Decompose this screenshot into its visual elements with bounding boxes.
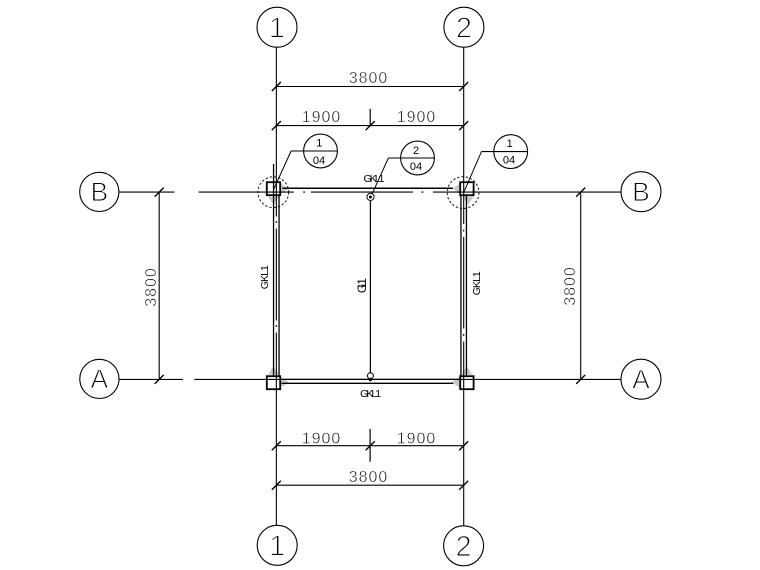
pin triangle beam grid2 bottom end xyxy=(461,366,472,375)
svg-text:1: 1 xyxy=(269,531,285,563)
svg-text:GL1: GL1 xyxy=(355,278,369,293)
beam GKL1 grid A bottom edge xyxy=(282,382,454,384)
dimension line 3800 bottom xyxy=(272,469,468,490)
beam GKL1 grid1 left edge xyxy=(273,164,275,376)
dimension line 3800 right xyxy=(562,188,585,384)
svg-text:GKL1: GKL1 xyxy=(360,388,381,400)
axis circle 2 top xyxy=(444,7,484,47)
svg-text:B: B xyxy=(632,177,650,207)
axis circle B left xyxy=(80,172,119,211)
detail callout 1/04 right xyxy=(464,135,528,192)
svg-text:B: B xyxy=(90,177,108,207)
svg-text:04: 04 xyxy=(313,155,325,167)
svg-text:1: 1 xyxy=(316,138,322,150)
pin triangle beam B right end xyxy=(453,184,460,194)
grid line 2 (vertical chain line) xyxy=(463,47,465,525)
svg-text:1900: 1900 xyxy=(302,109,342,126)
svg-text:04: 04 xyxy=(503,154,515,166)
axis circle 1 bottom xyxy=(257,525,297,565)
svg-text:1: 1 xyxy=(507,138,513,150)
detail callout 1/04 left xyxy=(274,134,338,189)
svg-text:3800: 3800 xyxy=(143,267,160,307)
grid line 1 (vertical chain line) xyxy=(275,47,277,525)
beam GKL1 grid A top edge on grid xyxy=(280,378,460,380)
svg-text:GKL1: GKL1 xyxy=(259,265,271,289)
axis circle A right xyxy=(621,359,661,399)
svg-text:A: A xyxy=(632,365,650,395)
svg-text:2: 2 xyxy=(456,531,472,563)
beam GL1 bottom end circle xyxy=(367,373,373,379)
dimension line 3800 left xyxy=(143,188,164,384)
pin triangle beam A left end xyxy=(281,377,289,387)
beam GL1 bottom end dot xyxy=(369,378,372,381)
beam GKL1 grid2 right edge xyxy=(465,195,467,376)
beam GKL1 grid1 right edge xyxy=(278,195,280,376)
column A1 xyxy=(267,376,280,389)
svg-text:2: 2 xyxy=(413,145,419,157)
dimension line 3800 top xyxy=(272,70,468,91)
pin triangle beam grid1 bottom end xyxy=(268,366,279,375)
pin triangle beam grid2 top end xyxy=(463,197,474,205)
column A2 xyxy=(460,376,473,389)
svg-text:1900: 1900 xyxy=(302,431,342,448)
beam GL1 centre line xyxy=(369,201,371,373)
dimension line 1900+1900 bottom xyxy=(272,429,468,462)
beam GL1 top end dot xyxy=(369,196,372,199)
beam GKL1 grid2 left edge xyxy=(460,195,462,376)
grid line B (horizontal chain line) xyxy=(119,191,621,193)
svg-text:GKL1: GKL1 xyxy=(364,173,385,185)
axis circle A left xyxy=(80,359,119,398)
pin triangle beam A right end xyxy=(452,378,460,388)
svg-text:GKL1: GKL1 xyxy=(471,271,483,295)
detail callout 2/04 middle xyxy=(372,141,434,193)
pin triangle beam B left end xyxy=(281,184,288,194)
svg-text:1900: 1900 xyxy=(397,109,437,126)
axis circle B right xyxy=(621,172,661,212)
detail circle around column B1 xyxy=(258,177,289,208)
dimension line 1900+1900 top xyxy=(272,109,468,130)
column B1 xyxy=(267,182,280,195)
axis circle 1 top xyxy=(257,7,297,47)
svg-text:1: 1 xyxy=(269,13,285,45)
beam GKL1 grid B top edge xyxy=(282,187,453,189)
grid line A (horizontal chain line) xyxy=(119,378,621,380)
svg-text:A: A xyxy=(91,364,109,394)
pin triangle beam grid1 top end xyxy=(268,197,279,205)
column B2 xyxy=(460,182,473,195)
detail circle around column B2 xyxy=(447,177,479,209)
svg-text:04: 04 xyxy=(410,161,422,173)
axis circle 2 bottom xyxy=(444,526,484,566)
beam GL1 top end circle xyxy=(367,193,374,200)
svg-text:1900: 1900 xyxy=(397,431,437,448)
svg-text:3800: 3800 xyxy=(349,469,389,486)
svg-text:2: 2 xyxy=(456,13,472,45)
svg-text:3800: 3800 xyxy=(349,70,389,87)
svg-text:3800: 3800 xyxy=(562,266,579,306)
